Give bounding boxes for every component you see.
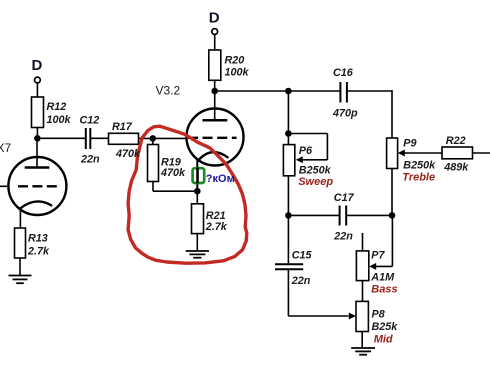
svg-text:C16: C16 (333, 67, 354, 79)
svg-text:B250k: B250k (403, 160, 436, 172)
svg-text:Treble: Treble (402, 172, 435, 184)
svg-text:22n: 22n (80, 154, 100, 166)
svg-text:489k: 489k (443, 161, 469, 173)
svg-text:470k: 470k (160, 167, 186, 179)
svg-text:470k: 470k (115, 148, 141, 160)
svg-text:22n: 22n (333, 230, 353, 242)
svg-text:D: D (209, 10, 220, 27)
svg-text:Sweep: Sweep (298, 176, 333, 188)
svg-text:R12: R12 (47, 101, 67, 113)
svg-text:P7: P7 (371, 250, 385, 262)
svg-text:R20: R20 (225, 55, 245, 67)
svg-text:22n: 22n (291, 275, 311, 287)
svg-text:2.7k: 2.7k (205, 221, 228, 233)
svg-text:X7: X7 (0, 141, 12, 155)
svg-text:C17: C17 (334, 192, 355, 204)
svg-text:Mid: Mid (374, 334, 393, 346)
svg-text:100k: 100k (47, 114, 72, 126)
svg-text:R13: R13 (28, 233, 48, 245)
svg-text:B250k: B250k (299, 164, 332, 176)
svg-text:2.7k: 2.7k (27, 246, 50, 258)
svg-text:470p: 470p (332, 108, 358, 120)
svg-text:P8: P8 (372, 309, 385, 321)
svg-text:D: D (32, 57, 43, 74)
svg-text:A1M: A1M (370, 272, 395, 284)
svg-text:B25k: B25k (372, 321, 399, 333)
svg-text:R22: R22 (446, 135, 466, 147)
svg-text:P6: P6 (299, 145, 313, 157)
svg-text:P9: P9 (403, 138, 416, 150)
svg-text:100k: 100k (225, 67, 250, 79)
svg-text:Bass: Bass (371, 284, 397, 296)
svg-text:R17: R17 (112, 121, 133, 133)
svg-text:?кОм: ?кОм (206, 173, 235, 185)
svg-text:C12: C12 (80, 115, 100, 127)
svg-text:C15: C15 (292, 249, 313, 261)
svg-text:V3.2: V3.2 (156, 84, 181, 98)
